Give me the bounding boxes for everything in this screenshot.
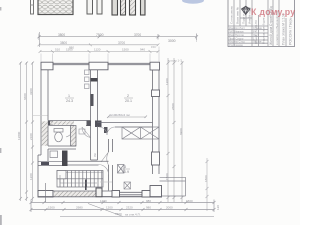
svg-text:1200: 1200	[165, 78, 169, 85]
dark vent bar	[62, 151, 68, 167]
top strip: cut-off schedule bar 1	[31, 0, 34, 14]
svg-text:Согласовано: Согласовано	[230, 6, 234, 24]
scan edge specks	[0, 7, 1, 11]
svg-text:2000: 2000	[166, 206, 173, 210]
svg-text:2320: 2320	[126, 206, 133, 210]
stair arrow	[60, 175, 97, 183]
svg-text:1: 1	[68, 94, 70, 98]
svg-text:3700: 3700	[134, 33, 141, 37]
wall A dark lintel	[91, 78, 98, 82]
bathroom hatched wall	[71, 126, 77, 147]
svg-text:План этажа М 1:100: План этажа М 1:100	[282, 13, 286, 45]
svg-text:3000: 3000	[168, 39, 176, 43]
svg-text:Изм Кол Лист: Изм Кол Лист	[229, 26, 246, 30]
svg-text:3700: 3700	[118, 41, 125, 45]
room 1 label	[66, 94, 73, 103]
bathroom bottom wall	[48, 146, 76, 149]
room 3 label	[122, 165, 129, 174]
witness line bottom-left	[45, 183, 47, 202]
title block small cell texts	[229, 26, 263, 47]
interior wall C horizontal (right)	[98, 123, 153, 128]
right wall pier 1	[152, 90, 160, 97]
svg-text:Взам инв №: Взам инв №	[236, 6, 240, 24]
right wall pier 2	[152, 152, 160, 165]
top wall window lines	[41, 63, 159, 64]
svg-text:1500: 1500	[186, 199, 193, 203]
interior wall A vertical	[91, 70, 98, 125]
svg-text:1200: 1200	[106, 206, 113, 210]
svg-text:7500: 7500	[115, 212, 122, 216]
bottom wall	[38, 191, 162, 197]
top strip: hatched lintel rectangle	[38, 0, 73, 15]
bottom-left corner pier	[38, 191, 53, 198]
svg-text:1500: 1500	[66, 47, 73, 51]
annotation line in room 2	[107, 116, 147, 119]
top dimension line 3	[39, 50, 160, 53]
bottom wall pier B	[142, 191, 150, 198]
svg-text:за отм.Ч.П.: за отм.Ч.П.	[125, 213, 141, 217]
svg-text:3800: 3800	[58, 33, 65, 37]
svg-text:3300: 3300	[29, 88, 33, 95]
bottom wall pier A	[112, 191, 120, 198]
svg-text:6900: 6900	[179, 128, 183, 135]
faint blue stamp remnant	[182, 0, 204, 4]
lower wall with dark mark	[38, 161, 62, 165]
washbasin	[50, 151, 58, 158]
svg-text:10.9: 10.9	[122, 170, 129, 174]
vent boxes beside wall A	[85, 70, 90, 89]
title block table	[228, 0, 295, 47]
top strip: bars pair	[87, 0, 102, 14]
svg-text:К дому.ру: К дому.ру	[251, 7, 295, 17]
bottom-right corner pier	[150, 186, 162, 198]
svg-text:24.3: 24.3	[66, 99, 73, 103]
left wall hatch near bathroom	[42, 121, 48, 146]
left wall jut	[38, 154, 41, 156]
kitchen bottom vent X	[124, 182, 131, 189]
svg-text:1500: 1500	[122, 47, 129, 51]
hall door arc near wall A	[82, 127, 91, 138]
right dimension chains	[167, 58, 184, 202]
svg-text:120: 120	[216, 205, 220, 210]
svg-text:Объект 154-09-ПЗ: Объект 154-09-ПЗ	[254, 20, 258, 44]
svg-text:4х100х50х4 пм: 4х100х50х4 пм	[109, 113, 130, 117]
right wall	[153, 70, 160, 174]
bottom wall dark corner block	[96, 188, 102, 197]
top strip: four section bars	[112, 0, 145, 15]
door arc wall D	[101, 152, 109, 165]
svg-text:1500: 1500	[165, 173, 169, 180]
svg-text:1800: 1800	[204, 175, 208, 182]
diamond logo	[242, 6, 251, 14]
svg-text:1500: 1500	[48, 206, 55, 210]
left dimension chains	[19, 62, 34, 202]
dark junction blobs wall A x wall B/C	[87, 121, 92, 127]
svg-text:150: 150	[151, 45, 156, 49]
door arc wall B	[66, 126, 74, 138]
svg-text:2600: 2600	[171, 103, 175, 110]
vent shaft with X	[118, 165, 125, 174]
top wall center pier	[89, 62, 108, 70]
svg-text:2: 2	[127, 94, 129, 98]
svg-text:Индивид жилой дом: Индивид жилой дом	[262, 18, 266, 44]
svg-text:6600: 6600	[23, 93, 27, 100]
corridor wall (wall A continuation)	[91, 126, 98, 160]
svg-text:980: 980	[146, 206, 151, 210]
top dimension line 2	[38, 43, 160, 46]
svg-text:2980: 2980	[76, 206, 83, 210]
svg-text:20.1: 20.1	[125, 99, 132, 103]
interior wall D vertical	[109, 139, 113, 191]
opening band with X boxes	[122, 127, 159, 139]
svg-text:3800: 3800	[60, 41, 67, 45]
wall A dark segment	[91, 94, 94, 106]
corridor door arc	[99, 165, 109, 175]
porch bottom right	[160, 177, 186, 196]
stair dark stringer	[85, 180, 87, 191]
top dimension line 1 (overall)	[38, 34, 199, 41]
far right chain	[206, 158, 209, 211]
svg-text:ЛК: ЛК	[93, 153, 97, 157]
corridor small fixture	[79, 129, 85, 134]
corridor bottom wall	[62, 161, 109, 165]
top wall left corner pier	[41, 62, 53, 70]
svg-text:13800: 13800	[17, 131, 21, 140]
svg-text:Утв Климов: Утв Климов	[229, 43, 244, 47]
top wall right corner pier	[150, 62, 160, 70]
room 2 label	[125, 94, 132, 103]
svg-text:РОССИя г.Тверь: РОССИя г.Тверь	[289, 17, 293, 45]
bottom dimension chains	[30, 200, 216, 217]
stairs	[57, 171, 103, 188]
svg-text:7500: 7500	[96, 33, 104, 37]
bottom wall hatched segment	[54, 192, 96, 197]
double door arcs wall C	[99, 127, 115, 135]
svg-text:1120: 1120	[94, 47, 101, 51]
svg-text:940: 940	[140, 47, 145, 51]
interior wall B horizontal (left)	[48, 121, 91, 126]
witness lines to wall piers	[41, 34, 197, 62]
extension line left	[38, 32, 40, 47]
left wall	[38, 70, 48, 192]
svg-text:ГИП Иванов: ГИП Иванов	[229, 29, 244, 33]
svg-text:510: 510	[55, 47, 60, 51]
svg-text:2100: 2100	[29, 133, 33, 140]
title block vertical texts	[230, 6, 293, 45]
svg-text:Разр Петров: Разр Петров	[229, 33, 245, 37]
wall B x left wall junction blob	[48, 121, 53, 125]
svg-text:3: 3	[124, 165, 126, 169]
svg-text:980: 980	[146, 199, 151, 203]
svg-text:1200: 1200	[29, 173, 33, 180]
toilet	[54, 129, 63, 142]
svg-text:1200: 1200	[100, 199, 107, 203]
